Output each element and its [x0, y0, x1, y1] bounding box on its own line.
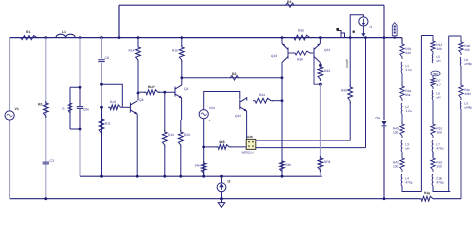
resistor R11	[99, 117, 104, 135]
label Q13	[271, 54, 277, 58]
label R4a value	[405, 93, 411, 97]
inductor L7	[431, 140, 434, 152]
wire chain A seg1	[401, 73, 403, 86]
junction bus Q13	[281, 36, 284, 39]
label R12 value	[436, 47, 442, 51]
label L3 value	[405, 146, 410, 150]
junction V04 node	[202, 146, 205, 149]
net flag VXA	[392, 23, 397, 36]
resistor R51	[431, 122, 435, 138]
transistor Q1	[175, 85, 182, 99]
svg-text:R1g: R1g	[424, 191, 430, 195]
svg-text:Q4: Q4	[139, 98, 144, 102]
label L5	[436, 55, 440, 59]
label R31	[405, 47, 411, 51]
label R40	[464, 44, 470, 48]
inductor C9b	[431, 174, 434, 186]
resistor Rg	[419, 196, 435, 201]
label 14k	[195, 164, 201, 168]
svg-text:R1: R1	[26, 30, 30, 34]
inductor L3	[400, 140, 403, 152]
svg-text:10M: 10M	[464, 92, 471, 96]
label I1	[370, 25, 373, 29]
svg-text:C86: C86	[83, 108, 89, 112]
junction bus C9	[100, 36, 103, 39]
junction bus top-rail-left	[118, 36, 121, 39]
wire chain C stub	[460, 36, 462, 42]
wire Q1 emitter lower	[180, 120, 182, 131]
svg-text:V04: V04	[209, 106, 215, 110]
label R40 value	[464, 48, 470, 52]
wire R14 lower	[137, 61, 139, 93]
resistor RFB	[318, 156, 323, 172]
wire Q14 base drop	[314, 59, 320, 85]
svg-text:888: 888	[433, 72, 438, 76]
resistor R14	[136, 45, 141, 62]
label C1	[50, 159, 55, 163]
label R33	[324, 69, 330, 73]
svg-text:W08115 i: W08115 i	[242, 151, 255, 155]
label R11	[105, 122, 111, 126]
label L3	[405, 143, 409, 147]
junction R19 rail	[163, 175, 166, 178]
wire chain B bottom	[433, 186, 450, 192]
resistor R13	[108, 105, 123, 110]
transistor Q4	[130, 101, 137, 115]
resistor R31	[400, 42, 404, 59]
label U36	[247, 135, 253, 139]
label COMP vertical	[345, 59, 349, 68]
wire Q12 emitter	[246, 111, 248, 139]
net oval 888	[431, 71, 440, 76]
label R52	[436, 161, 442, 165]
label R31 value	[405, 51, 411, 55]
resistor R33	[318, 65, 323, 81]
wire comp chain lower	[349, 102, 351, 141]
junction pair bottom	[79, 128, 82, 131]
inductor L1	[400, 62, 403, 73]
label 4k5	[219, 140, 225, 144]
label L8 value	[464, 62, 472, 66]
junction bus 350	[349, 36, 352, 39]
label Q12	[235, 114, 241, 118]
junction output rail	[383, 197, 386, 200]
inductor L9	[459, 101, 462, 109]
wire chain A bottom	[402, 186, 421, 192]
label R42 value	[393, 164, 399, 168]
junction Q1 collector node	[180, 76, 183, 79]
wire Q14 collector	[319, 63, 321, 66]
wire R16 lower	[181, 61, 183, 78]
svg-text:Q13: Q13	[271, 54, 277, 58]
capacitor C1	[42, 162, 49, 165]
label R52 value	[436, 164, 442, 168]
wire chain C bracket	[449, 35, 461, 37]
label L7	[436, 143, 440, 147]
junction 14k rail	[202, 175, 205, 178]
label C9b	[436, 177, 442, 181]
label L7 value	[436, 146, 443, 150]
svg-text:uH8p: uH8p	[464, 62, 472, 66]
svg-text:R13: R13	[110, 100, 116, 104]
junction pair top	[79, 86, 82, 89]
label Q14	[324, 48, 330, 52]
resistor R40	[459, 40, 463, 55]
label R0	[38, 102, 42, 106]
svg-text:R0: R0	[38, 102, 42, 106]
label Q4	[139, 98, 144, 102]
wire Q1 collector	[181, 78, 183, 85]
wire mid vertical 282	[281, 78, 283, 176]
optocoupler U36 body	[246, 139, 256, 149]
junction R20 rail	[179, 175, 182, 178]
svg-text:uH: uH	[405, 146, 410, 150]
junction bus R16	[180, 36, 183, 39]
wire V04 top loop	[204, 92, 240, 110]
label R38	[297, 58, 303, 62]
svg-text:R20: R20	[184, 133, 190, 137]
resistor 4k5	[216, 145, 231, 150]
label R36	[298, 29, 304, 33]
wire chain C seg2	[460, 109, 462, 199]
label L2	[405, 105, 409, 109]
resistor R45	[400, 122, 404, 138]
wire output leg	[383, 5, 385, 120]
resistor R36	[292, 35, 312, 40]
svg-text:1.2u: 1.2u	[405, 109, 411, 113]
wire chain A seg3	[401, 152, 403, 158]
label L9 value	[464, 105, 472, 109]
wire chain B stub	[432, 36, 434, 42]
wire R16 upper	[181, 38, 183, 46]
wire I-sense drop	[365, 38, 367, 148]
label L1	[405, 64, 409, 68]
label Rg	[424, 191, 430, 195]
wire box out lower	[256, 147, 366, 149]
inductor L8	[459, 57, 462, 66]
wire Q12 collector	[246, 97, 248, 101]
wire Q13 collector	[281, 63, 283, 78]
label R13	[110, 100, 116, 104]
svg-text:4.7: 4.7	[436, 83, 441, 87]
inductor L1	[56, 34, 75, 37]
wire V04 lower	[203, 119, 205, 176]
svg-text:Q1: Q1	[184, 87, 189, 91]
wire main bus	[10, 37, 402, 39]
svg-text:COMP: COMP	[345, 59, 349, 68]
label L2 value	[405, 109, 411, 113]
svg-text:C1: C1	[50, 159, 55, 163]
wire R14 upper	[137, 38, 139, 46]
junction R44 node	[281, 99, 284, 102]
resistor R7	[431, 76, 435, 89]
label Q1	[184, 87, 189, 91]
resistor 530	[280, 159, 285, 174]
svg-text:14k: 14k	[195, 164, 201, 168]
svg-text:RFB: RFB	[324, 160, 330, 164]
junction Q1 base node	[163, 91, 166, 94]
wire base row left	[138, 91, 145, 93]
svg-text:C9: C9	[105, 56, 109, 60]
inductor L6	[431, 90, 434, 100]
transistor Q12	[240, 98, 247, 112]
label R20	[184, 133, 190, 137]
wire Q4 collector	[137, 93, 139, 101]
label R45 value	[393, 130, 399, 134]
inductor L5	[431, 54, 434, 63]
label R51 value	[436, 130, 442, 134]
wire R11 branch	[101, 107, 103, 176]
svg-text:R43: R43	[341, 89, 347, 93]
resistor 14k	[201, 161, 206, 175]
label L4	[405, 177, 409, 181]
wire Q4 emitter	[136, 114, 138, 176]
wire I2 upper	[221, 176, 223, 183]
svg-text:+: +	[209, 119, 211, 123]
label R43	[341, 89, 347, 93]
current source I1 arrow	[361, 26, 365, 37]
wire comp chain upper	[349, 38, 351, 86]
svg-text:L1: L1	[62, 30, 66, 34]
junction R33 top	[319, 64, 322, 67]
label D1	[375, 116, 380, 120]
svg-text:1.2u: 1.2u	[405, 68, 411, 72]
label R45	[393, 127, 399, 131]
svg-text:uH: uH	[436, 95, 441, 99]
svg-text:100: 100	[393, 164, 399, 168]
wire R19 upper	[164, 92, 166, 131]
junction bus 365	[364, 36, 367, 39]
wire mid-low bus left riser	[79, 129, 81, 176]
resistor R4c	[459, 83, 463, 100]
label R42	[393, 161, 399, 165]
label V04 plus	[209, 119, 211, 123]
junction R33 bottom	[319, 83, 322, 86]
wire R19 lower	[164, 146, 166, 176]
junction bus R14	[137, 36, 140, 39]
junction Q13 collector	[281, 76, 284, 79]
wire R0 branch	[45, 38, 47, 199]
svg-text:R3: R3	[287, 0, 291, 4]
svg-text:R14: R14	[129, 49, 135, 53]
wire C9 branch upper	[101, 38, 103, 59]
svg-text:R2: R2	[232, 72, 236, 76]
label r1	[62, 107, 65, 111]
label V1	[15, 107, 19, 111]
resistor R1	[19, 36, 39, 40]
label R14	[129, 49, 135, 53]
wire chain B seg2	[432, 152, 434, 158]
svg-text:4k5: 4k5	[219, 140, 225, 144]
parallel pair frame	[70, 87, 80, 129]
transistor Q13	[282, 44, 288, 63]
wire mid-low bus	[80, 175, 322, 177]
label I2	[228, 180, 231, 184]
resistor R19	[162, 130, 167, 147]
svg-text:530: 530	[286, 163, 292, 167]
wire C9 to base	[102, 84, 123, 107]
wire Q14 emitter	[319, 38, 321, 44]
junction Q4 emitter rail	[136, 175, 139, 178]
resistor Rg inline	[420, 195, 434, 202]
label R4a	[405, 89, 411, 93]
svg-text:R19: R19	[168, 133, 174, 137]
label X2	[336, 28, 339, 31]
label 530	[286, 163, 292, 167]
junction bus Q14	[319, 36, 322, 39]
svg-text:I2: I2	[228, 180, 231, 184]
label L8	[464, 58, 468, 62]
label C86	[83, 108, 89, 112]
svg-text:100: 100	[464, 48, 470, 52]
label R16	[172, 49, 178, 53]
svg-text:Q12: Q12	[235, 114, 241, 118]
junction flag base	[394, 36, 396, 38]
resistor R3 small	[286, 3, 295, 7]
wire R44 right	[272, 100, 282, 102]
svg-text:uH: uH	[436, 59, 441, 63]
label L9	[464, 102, 468, 106]
label R7	[436, 79, 440, 83]
label R15	[148, 85, 155, 89]
resistor R2 small	[230, 75, 239, 80]
label VXA	[394, 26, 396, 34]
capacitor C86	[76, 106, 83, 109]
svg-text:89k: 89k	[405, 93, 411, 97]
wire R20 lower	[180, 146, 182, 176]
svg-text:100: 100	[436, 130, 442, 134]
svg-text:100: 100	[436, 164, 442, 168]
svg-text:U36: U36	[247, 135, 253, 139]
svg-text:100: 100	[393, 130, 399, 134]
label L1	[62, 30, 66, 34]
wire RFB riser	[319, 84, 321, 176]
wire box out upper	[256, 140, 350, 142]
ground	[218, 199, 225, 208]
junction I2 rail	[220, 197, 223, 200]
junction Q4 collector node	[137, 92, 140, 95]
inductor L4	[400, 174, 403, 186]
resistor R4a	[400, 84, 404, 101]
svg-text:V1: V1	[15, 107, 19, 111]
label L1 value	[405, 68, 411, 72]
junction base node	[100, 106, 103, 109]
junction top rail right	[383, 36, 386, 39]
transistor Q14	[314, 44, 320, 63]
resistor R38	[293, 51, 312, 55]
resistor R12	[431, 39, 435, 54]
svg-text:RLP: RLP	[148, 85, 155, 89]
label R44	[259, 93, 265, 97]
label part number	[242, 151, 255, 155]
junction rail-C1	[44, 197, 47, 200]
wire I2 lower	[221, 192, 223, 199]
wire chain B leg	[420, 36, 422, 192]
resistor R16	[179, 45, 184, 62]
junction 530 rail	[281, 175, 284, 178]
label L6	[436, 92, 440, 96]
svg-text:Q14: Q14	[324, 48, 330, 52]
current source I1	[359, 17, 368, 26]
label L6 value	[436, 95, 441, 99]
resistor R42	[400, 156, 404, 172]
wire Q1 emitter	[181, 98, 183, 120]
voltage source V1	[5, 111, 14, 120]
label X3	[353, 31, 355, 33]
label R3	[287, 0, 291, 4]
svg-text:R16: R16	[172, 49, 178, 53]
resistor R15	[144, 90, 160, 95]
wire collector row	[182, 77, 282, 79]
wire C9 branch lower	[101, 63, 103, 107]
wire chain B bracket	[421, 35, 433, 37]
label L4 value	[405, 180, 412, 184]
svg-text:R44: R44	[259, 93, 265, 97]
wire chain C leg	[448, 36, 450, 192]
wire 4k5 left	[204, 146, 217, 148]
wire R38 right	[311, 52, 314, 54]
current source I2	[217, 183, 226, 192]
resistor R43	[348, 85, 353, 103]
svg-text:470p: 470p	[405, 180, 412, 184]
label R1	[26, 30, 30, 34]
svg-text:R33: R33	[324, 69, 330, 73]
wire R38 left	[288, 52, 294, 54]
svg-text:470p: 470p	[436, 180, 443, 184]
svg-text:uH8p: uH8p	[464, 105, 472, 109]
label C9b value	[436, 180, 443, 184]
wire 4k5 right	[230, 146, 246, 148]
junction R11 bottom	[100, 175, 103, 178]
label R12	[436, 43, 442, 47]
label R4c	[464, 88, 470, 92]
junction mid-low I2	[220, 175, 223, 178]
junction bus A	[79, 36, 82, 39]
device X2 small	[337, 31, 345, 38]
svg-text:r1: r1	[62, 107, 65, 111]
label R2	[232, 72, 236, 76]
wire I1 loop	[350, 15, 363, 38]
svg-text:640: 640	[405, 51, 411, 55]
svg-text:R38: R38	[297, 58, 303, 62]
label V04	[209, 106, 215, 110]
wire top rail	[119, 4, 384, 6]
wire base row right	[158, 91, 175, 93]
resistor R20	[178, 130, 183, 147]
wire Q13 emitter	[281, 38, 283, 44]
svg-text:R11: R11	[105, 122, 111, 126]
wire bottom rail	[10, 198, 461, 200]
svg-text:I1: I1	[370, 25, 373, 29]
label L5 value	[436, 59, 441, 63]
wire chain A top corner	[401, 38, 403, 44]
label R4c value	[464, 92, 471, 96]
wire left source riser	[9, 38, 11, 199]
label R51	[436, 127, 442, 131]
resistor R52	[431, 156, 435, 172]
wire R13 to Q4	[123, 106, 131, 108]
svg-text:470u: 470u	[436, 146, 443, 150]
label R7 value	[436, 83, 441, 87]
label RFB	[324, 160, 330, 164]
svg-text:73a: 73a	[375, 116, 380, 120]
svg-text:R36: R36	[298, 29, 304, 33]
inductor L2	[400, 103, 403, 114]
voltage source V04	[199, 110, 208, 119]
wire top rail left drop	[118, 5, 120, 37]
label C9	[105, 56, 109, 60]
svg-text:100: 100	[436, 47, 442, 51]
